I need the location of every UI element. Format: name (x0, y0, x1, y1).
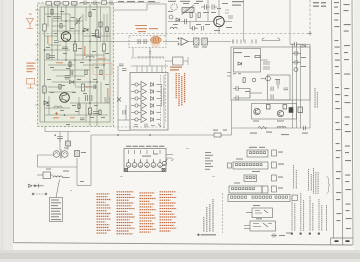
cell dash right (346, 240, 350, 242)
resistor R7 (88, 108, 91, 114)
wire y185.5 (77, 185, 91, 187)
wire horizontal y115 (45, 114, 109, 116)
rotated note upper parts (294, 165, 312, 191)
resistor R6 (102, 44, 105, 51)
note footline with square bullet (198, 234, 200, 236)
pin rect (283, 105, 287, 110)
wire caps (242, 89, 250, 99)
component row above region (46, 1, 160, 6)
wire x91 long vertical (90, 135, 92, 186)
resistor R8 (46, 2, 52, 6)
wire horizontal y122 (40, 121, 110, 123)
capacitor C20 (271, 95, 273, 100)
wire vertical x52 (51, 4, 53, 60)
three vertical rails (293, 44, 301, 128)
mains transformer TR1 secondary (62, 151, 69, 158)
dial lamp LP7 tilted (162, 161, 166, 165)
connector strip K2 (233, 162, 268, 169)
page bottom border (14, 243, 353, 245)
IC internal dashed rail (160, 75, 162, 128)
connector strip K3 (244, 175, 257, 182)
wire vertical x110 (109, 7, 111, 122)
lamp labels above box (126, 146, 164, 157)
wire y135 to amp (221, 134, 232, 136)
zigzag resistor R17 (258, 126, 267, 129)
wire x208 (207, 0, 209, 22)
wire top row (100, 2, 160, 4)
capacitor C25 (123, 110, 125, 115)
faint orange highlight box (93, 64, 112, 75)
diode D3 (176, 18, 180, 21)
type label box (50, 198, 63, 222)
pin row 5 (135, 111, 138, 114)
bottom scan shadow band (0, 250, 360, 262)
lamp box outputs right (166, 155, 174, 162)
capacitor C33 (119, 64, 124, 66)
stub to S1 (246, 212, 252, 214)
labels under power section (234, 52, 308, 135)
wire y66 above IC (131, 65, 168, 67)
wire through interstage box (166, 57, 188, 65)
wire filter to audio stage (163, 41, 179, 43)
legend column 3 (140, 193, 156, 232)
wire horizontal y7 (40, 6, 110, 8)
capacitor C3 (86, 95, 92, 101)
labels near transformer (46, 130, 227, 183)
choke coil L4 (277, 127, 286, 129)
wire from IC top to filter (137, 57, 164, 66)
legend column 1 (97, 194, 111, 233)
capacitor C8 (80, 1, 90, 6)
wire vertical bus x40 (39, 7, 41, 122)
coil L2 (54, 106, 62, 108)
wire x77 down (76, 158, 78, 186)
inner sub-box upper left (234, 49, 261, 73)
tiny text column mid page (205, 152, 213, 170)
resistor R14 (202, 38, 208, 45)
resistor R13 (194, 38, 200, 45)
junction dots y135 (117, 134, 151, 136)
wire y135 main (91, 134, 214, 136)
transistor T2 AM osc (60, 93, 70, 103)
wire transistor out (224, 21, 232, 23)
pin row 3 (135, 97, 138, 100)
wire x45 (44, 127, 46, 132)
plug box K4 (272, 186, 277, 192)
orange note heading (170, 67, 182, 71)
wire into filter (114, 41, 150, 43)
extra small parts green region (44, 10, 109, 120)
capacitor C17 (233, 86, 242, 91)
wire IF line y21 (168, 21, 214, 23)
connector labels (234, 147, 291, 236)
pin row 4 (135, 104, 138, 107)
car aerial symbol (27, 79, 35, 89)
extra wires green region (45, 7, 111, 122)
wire y130.5 (118, 130, 130, 132)
capacitor C9 (91, 1, 99, 6)
plug box K3 (272, 175, 277, 181)
pin row 2 (135, 90, 138, 93)
orange rotated note column (176, 73, 184, 106)
dial lamp LP4 (145, 163, 150, 168)
capacitor C10 (201, 5, 210, 10)
IC internal rail (163, 75, 165, 128)
fuse F2 on main wire (214, 133, 221, 137)
capacitor C12 coupling (185, 19, 187, 24)
wire y128 (232, 127, 311, 129)
tiny grey labels green region (46, 9, 109, 125)
resistor R15 (263, 62, 270, 64)
capacitor C4 (65, 76, 71, 80)
coil L1 (86, 56, 94, 58)
plug box K5 (292, 195, 298, 201)
junction mark at dashed corner (308, 32, 312, 36)
terminal box (298, 107, 303, 113)
resistor R5 (95, 30, 98, 37)
rail x296.5 (296, 44, 298, 128)
capacitor C14 (138, 39, 140, 44)
resistor R10 (63, 2, 69, 6)
dashed rail x222.5 (222, 193, 224, 233)
resistor R11 (72, 2, 78, 6)
left page-edge shading (0, 0, 14, 262)
wire horizontal y31 (52, 30, 80, 32)
wire x219 up (218, 0, 220, 16)
wire x196 (195, 13, 197, 22)
inner sub-box lower right (268, 75, 291, 100)
wire horizontal y92 (48, 91, 75, 93)
dial lamp LP6 (158, 163, 163, 168)
pilot connector arrow (29, 184, 44, 188)
dial lamp LP2 (132, 163, 137, 168)
legend column 2 (117, 192, 135, 234)
transistor T1 FM mixer (61, 32, 71, 42)
strip voltage figures left column (334, 2, 341, 221)
rail x292.5 (292, 44, 294, 128)
strip voltage figures right column (344, 4, 352, 229)
pilot comp (271, 234, 277, 238)
wire to fuse (37, 174, 53, 176)
resistor R3 (73, 44, 76, 51)
wire horizontal y60 (45, 59, 111, 61)
capacitor C11 (212, 5, 217, 10)
adjust arrow (182, 5, 195, 15)
resistor R16 (263, 67, 270, 69)
pin ticks on box left (227, 73, 241, 77)
diode D2 (302, 45, 306, 48)
highlighted AM/FM front-end region (green) (38, 3, 114, 127)
plug box K2 (272, 162, 277, 168)
electrolytic cap (filled) (289, 108, 293, 113)
end box K4 (262, 186, 268, 193)
supply wire x243 (243, 0, 245, 42)
diode D4 (238, 62, 242, 65)
capacitor C32 (284, 88, 289, 90)
wire vertical x83 (82, 14, 84, 60)
capacitor C29 (190, 26, 198, 31)
resistor R19 (102, 1, 107, 4)
wire vertical x75 (74, 4, 76, 86)
trimmer cap CT1 (75, 17, 82, 26)
wire x219 down (218, 27, 220, 34)
connector strip K4 (229, 186, 262, 193)
wire horizontal y103 (70, 102, 110, 104)
wire x68 (67, 132, 69, 151)
dashed filter box (129, 36, 166, 48)
core lines (61, 150, 62, 159)
strip line middle (341, 0, 343, 238)
rotated strip notes left of strip (314, 88, 319, 194)
curly brace (327, 176, 331, 194)
dashed rail x165.5 (165, 60, 167, 122)
wire vertical x97 (96, 4, 98, 126)
tiny gray labels top centre (168, 1, 326, 31)
wire horizontal y41 mixer output (58, 41, 114, 43)
wire horizontal y82 (52, 81, 97, 83)
resistor R12 (tuner) (182, 8, 194, 13)
resistor R18 (75, 151, 80, 157)
resistor R2 (43, 86, 46, 93)
mounting square right (162, 168, 165, 171)
wire y44 right (300, 43, 310, 45)
junction dots (66, 42, 90, 83)
plug boxes K1 (272, 150, 277, 156)
small circle trimmer (252, 78, 256, 82)
wire vertical x90 (89, 4, 91, 126)
capacitor C28 (110, 1, 112, 6)
wire x231.5 (231, 100, 233, 135)
amplifier block box (231, 47, 310, 100)
capacitor C30 (202, 26, 204, 31)
resistor R1 (43, 24, 46, 31)
resistor R4 (81, 84, 84, 91)
border wire stubs (35, 10, 39, 105)
bottom row symbols (134, 124, 161, 128)
capacitor C18 (233, 96, 242, 101)
coil L5 (53, 176, 63, 178)
bottom rail of power section (232, 44, 311, 135)
wire stubs (190, 10, 229, 29)
capacitor C22 (292, 60, 301, 65)
rail x300.5 (300, 44, 302, 128)
capacitor C16 (290, 42, 300, 47)
cell dash left (335, 240, 339, 242)
wire vertical x44.5 (44, 7, 46, 122)
pre-box K2 (228, 163, 232, 168)
transistor T4 driver (266, 76, 271, 81)
tiny top text (118, 1, 124, 2)
transistor T3 IF amp (214, 16, 224, 26)
scattered scan specks (70, 148, 215, 191)
dashed boundary x310 vertical (309, 0, 311, 34)
capacitor C1 (53, 17, 61, 19)
coil L3 (170, 27, 177, 29)
mains transformer TR1 primary (53, 151, 60, 158)
dashed boundary line y33.5 (38, 33, 311, 35)
wire vertical x57.5 (57, 4, 59, 40)
plus marks (178, 37, 180, 45)
footnote bullets (291, 233, 293, 235)
label text lines (51, 200, 61, 221)
dashed link under filter (131, 57, 165, 59)
capacitor C21 (292, 51, 301, 56)
gray rotated note beside dashed rail (162, 84, 164, 106)
resistor R22 (243, 78, 245, 83)
crystal X1 (117, 98, 121, 102)
pin rect (267, 105, 271, 110)
stub to S2 (244, 226, 250, 229)
IC top leads (137, 66, 162, 73)
wire x60 (59, 132, 61, 151)
small circle component (294, 68, 298, 72)
aerial number (29, 14, 32, 15)
dial lamp LP5 (151, 163, 156, 168)
diagonal lead to label (56, 180, 60, 198)
coupling cap C24 (149, 48, 151, 58)
wire horizontal y14 (45, 13, 71, 15)
strip line left (332, 0, 334, 238)
wire filter box down (132, 48, 134, 59)
jumper link (34, 193, 46, 195)
wire from region to filter (114, 4, 167, 36)
junction dots green region (44, 20, 105, 116)
lamp pin ticks (129, 150, 161, 154)
pin row 1 (135, 83, 138, 86)
wire vertical x66 lower (65, 42, 67, 60)
wire x310 right edge (309, 44, 311, 128)
car aerial label (27, 63, 36, 73)
amplifier triangle (181, 38, 188, 45)
loop left (38, 155, 78, 167)
aerial symbol (27, 19, 34, 29)
electrolytic capacitor C26 (54, 134, 63, 141)
small circle meter (169, 15, 173, 19)
power transistor T6 (277, 110, 283, 116)
capacitor C31 (277, 80, 279, 89)
orange IF transformer (highlighted) (150, 36, 161, 43)
fuse box F1 (43, 172, 51, 179)
power transistor T5 (254, 108, 260, 114)
pin ticks on dashed line (233, 40, 245, 44)
dial lamp LP1 (126, 163, 131, 168)
pin row 6 (135, 118, 138, 121)
orange label above filter (135, 25, 147, 26)
faint orange labels inside green region (47, 36, 109, 119)
capacitor C5 (104, 98, 110, 102)
wire x118 (117, 66, 119, 130)
inner wire across (250, 60, 268, 98)
shielded-cable bracket (262, 38, 280, 41)
wire y120 (118, 119, 130, 121)
resistor R21 (198, 13, 200, 18)
diode D1 (70, 81, 74, 84)
capacitor C6 (93, 112, 99, 114)
strip bottom cells (331, 238, 353, 245)
switch box S1 (252, 208, 273, 218)
capacitor C13 (228, 16, 233, 18)
connector strip K1 (247, 150, 268, 157)
output transistor sub-box (252, 104, 297, 120)
supply wire x290 (289, 0, 291, 44)
capacitor C19 (271, 87, 273, 92)
labels under audio resistors (194, 47, 199, 48)
page left border (13, 0, 15, 243)
wire from coil (63, 177, 70, 179)
mounting square left (125, 168, 128, 171)
switch box S2 (250, 221, 276, 231)
wire audio to right section (188, 41, 194, 43)
strip line right (352, 0, 353, 245)
orange + mark (55, 112, 58, 115)
dashed extension of region boundary (114, 126, 167, 128)
resistor R9 (55, 2, 61, 6)
resistor R20 (190, 13, 192, 18)
wire horizontal y50 (45, 49, 71, 51)
capacitor C34 (122, 69, 127, 71)
capacitor C23 (304, 126, 306, 130)
dial lamp LP3 (138, 163, 143, 168)
pin ticks top dashed (233, 40, 256, 44)
wire horizontal y70 (52, 69, 90, 71)
wire vertical x66 (65, 4, 67, 31)
resistor R23 (255, 56, 260, 58)
extra parts top centre (169, 10, 229, 31)
variable capacitor (dashed circle) (171, 4, 177, 10)
wire y131.5 (45, 131, 90, 133)
capacitor C2 (62, 47, 68, 49)
capacitor C15 (144, 39, 146, 44)
legend column 4 (160, 192, 177, 231)
main connector strip K5 (228, 195, 290, 202)
capacitor C27 (66, 141, 71, 146)
capacitor C7 (49, 56, 55, 58)
small interstage box (173, 57, 184, 65)
wire horizontal y21 (52, 20, 83, 22)
wire vertical x104 (103, 14, 105, 80)
wire x126 (125, 105, 127, 120)
